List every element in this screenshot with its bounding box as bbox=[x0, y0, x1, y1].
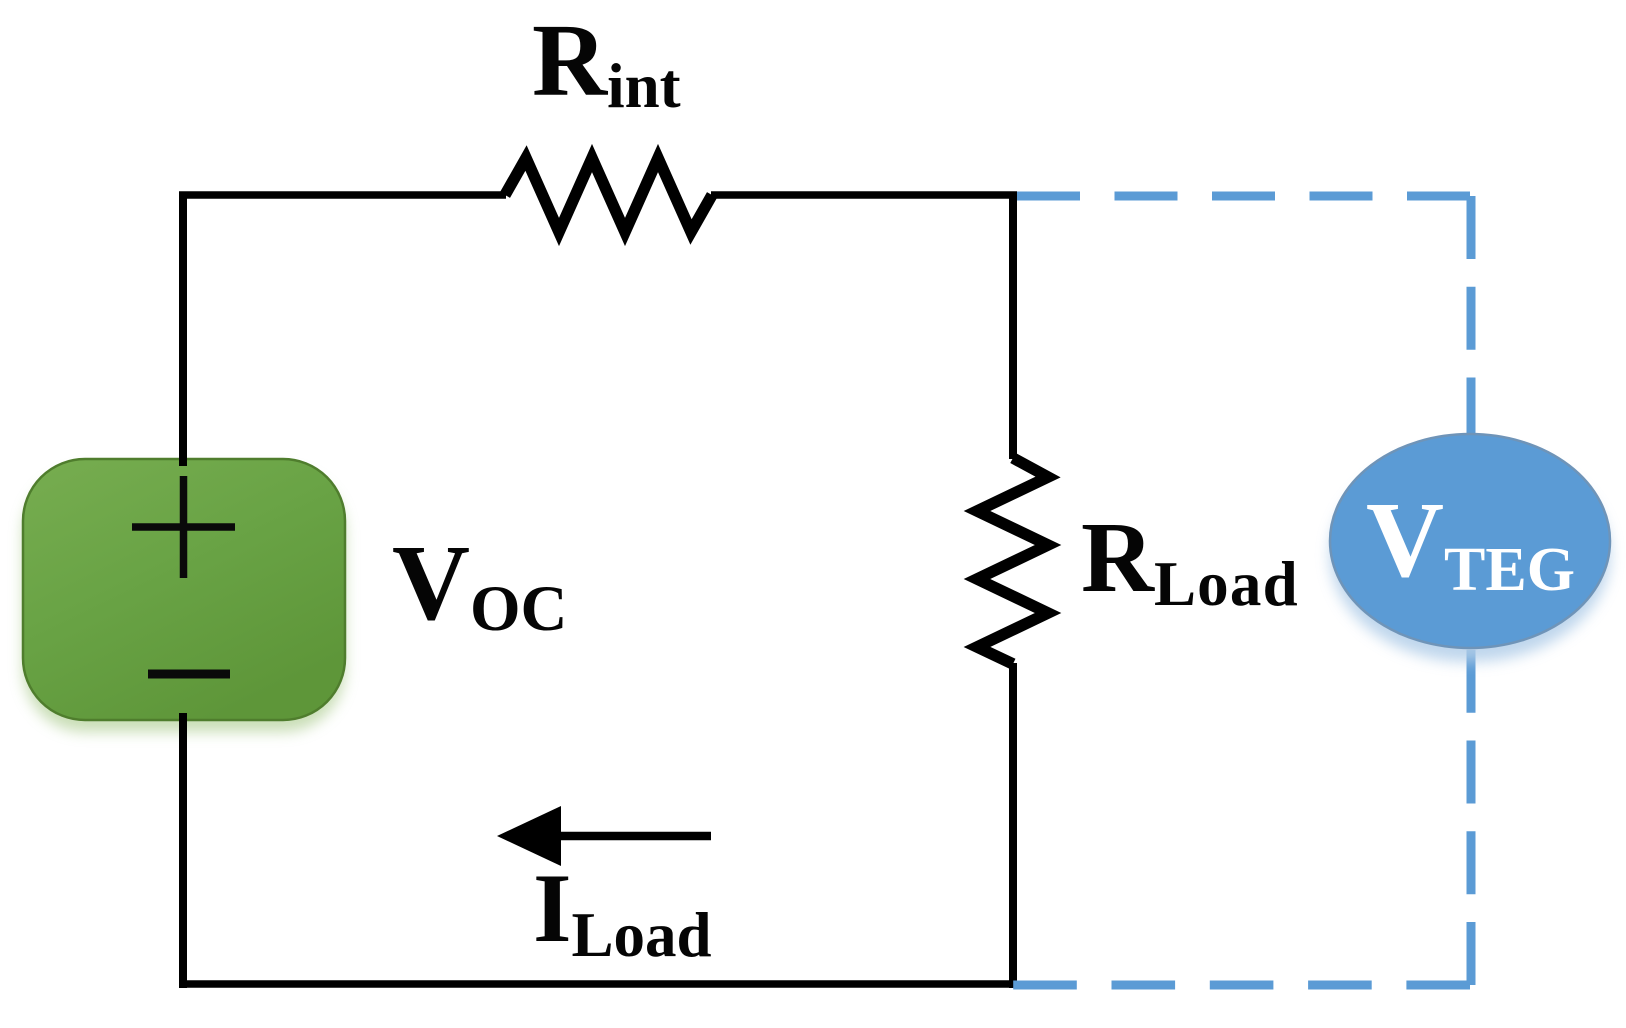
dashed boundary bottom (TEG box) bbox=[1013, 981, 1470, 990]
node V_TEG (blue ellipse) bbox=[1330, 434, 1610, 648]
resistor R_Load (vertical zigzag) bbox=[977, 458, 1048, 664]
wire: top rail left of R_int bbox=[179, 191, 506, 199]
svg-text:RLoad: RLoad bbox=[1081, 501, 1299, 619]
wire: right vertical above R_Load bbox=[1009, 192, 1017, 459]
svg-text:Rint: Rint bbox=[532, 3, 681, 121]
resistor R_int (zigzag) bbox=[505, 158, 712, 232]
svg-text:ILoad: ILoad bbox=[533, 854, 712, 970]
wire: bottom rail bbox=[179, 980, 1017, 988]
wire: right vertical below R_Load bbox=[1009, 663, 1017, 988]
battery source V_OC (green rounded box) bbox=[23, 459, 345, 720]
wire: left vertical bottom (source to bottom rail) bbox=[179, 713, 187, 988]
glow under V_TEG ellipse bbox=[1330, 448, 1610, 662]
dashed boundary top (TEG box) bbox=[1017, 192, 1470, 201]
current arrow I_Load (shaft) bbox=[558, 832, 711, 841]
svg-text:VOC: VOC bbox=[392, 524, 568, 645]
current arrow I_Load (head) bbox=[497, 806, 561, 866]
minus terminal bbox=[148, 670, 230, 679]
wire: top rail right of R_int bbox=[711, 191, 1017, 199]
plus terminal bbox=[132, 476, 235, 578]
glow under battery source bbox=[23, 471, 345, 732]
wire: left vertical top (source to top rail) bbox=[179, 195, 187, 466]
dashed boundary right (TEG box) bbox=[1467, 196, 1476, 985]
